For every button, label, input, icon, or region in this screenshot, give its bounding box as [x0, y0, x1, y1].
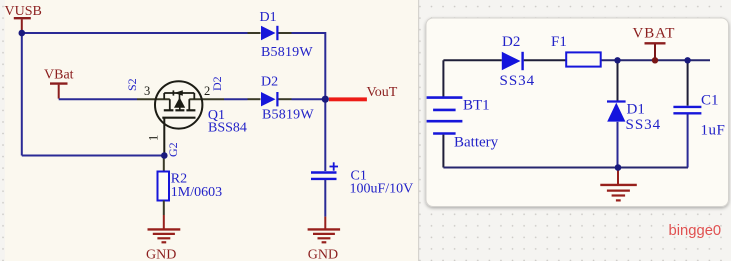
- svg-text:GND: GND: [146, 248, 176, 261]
- svg-text:Battery: Battery: [454, 135, 499, 151]
- svg-text:D1: D1: [260, 10, 277, 25]
- svg-text:GND: GND: [308, 247, 338, 261]
- svg-text:VBat: VBat: [44, 68, 74, 83]
- svg-text:C1: C1: [701, 92, 719, 108]
- svg-text:1uF: 1uF: [701, 123, 726, 139]
- svg-text:G2: G2: [166, 142, 180, 157]
- svg-text:SS34: SS34: [626, 117, 662, 133]
- svg-text:VouT: VouT: [367, 85, 398, 100]
- svg-text:D2: D2: [502, 34, 520, 50]
- svg-text:D1: D1: [627, 102, 645, 118]
- svg-text:1: 1: [146, 135, 160, 141]
- svg-text:F1: F1: [551, 34, 567, 50]
- svg-text:D2: D2: [261, 74, 278, 89]
- svg-text:bingge0: bingge0: [669, 223, 722, 239]
- svg-text:VUSB: VUSB: [5, 4, 42, 19]
- svg-text:3: 3: [144, 84, 150, 98]
- svg-text:VBAT: VBAT: [633, 26, 676, 42]
- svg-text:D2: D2: [210, 76, 224, 91]
- svg-text:B5819W: B5819W: [262, 107, 314, 122]
- svg-text:BSS84: BSS84: [208, 121, 247, 136]
- svg-text:100uF/10V: 100uF/10V: [350, 182, 414, 197]
- svg-text:B5819W: B5819W: [261, 45, 313, 60]
- svg-text:1M/0603: 1M/0603: [171, 185, 222, 200]
- svg-text:S2: S2: [125, 78, 139, 91]
- svg-text:SS34: SS34: [500, 73, 536, 89]
- svg-text:BT1: BT1: [463, 98, 490, 114]
